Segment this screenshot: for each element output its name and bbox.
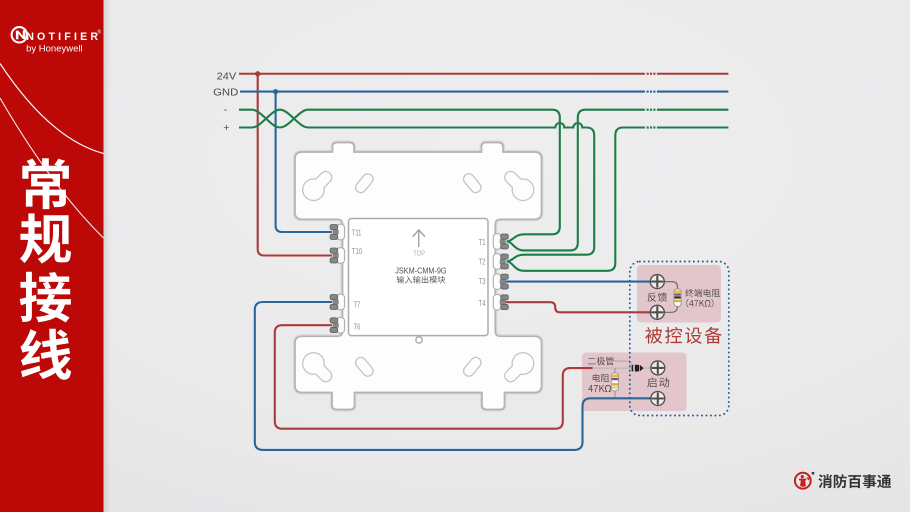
svg-text:T1: T1 xyxy=(479,238,486,247)
screw slot bottom-right-small xyxy=(469,363,476,371)
TOP arrow xyxy=(413,230,425,247)
svg-text:GND: GND xyxy=(213,87,238,98)
LED hole xyxy=(416,337,422,343)
label 反馈 xyxy=(648,293,668,302)
terminal pocket T11 xyxy=(337,224,345,240)
keyhole slot bottom-right xyxy=(511,352,535,376)
terminal pocket T4 xyxy=(493,294,501,310)
svg-text:T10: T10 xyxy=(352,247,363,256)
terminal screw block T11 xyxy=(330,225,339,240)
svg-text:NOTIFIER: NOTIFIER xyxy=(26,31,101,43)
terminal pocket T10 xyxy=(337,248,345,264)
消防百事通 logo text xyxy=(818,474,891,488)
svg-text:+: + xyxy=(223,122,229,134)
label 被控设备 xyxy=(645,327,722,344)
terminal screw block T10 xyxy=(330,248,339,263)
svg-text:-: - xyxy=(224,104,228,116)
svg-text:T6: T6 xyxy=(354,323,361,332)
controlled device feedback box xyxy=(637,265,721,323)
terminal pocket T3 xyxy=(493,274,501,290)
wire T3 to feedback screw (blue) xyxy=(506,281,651,283)
wire 24V bus (red) xyxy=(239,73,645,75)
screw slot top-right-small xyxy=(469,179,476,187)
screw terminal feedback - xyxy=(650,305,664,319)
svg-text:JSKM-CMM-9G: JSKM-CMM-9G xyxy=(395,266,447,276)
break dots plus xyxy=(647,126,656,128)
消防百事通 logo icon xyxy=(795,473,811,489)
terminal screw block T3 xyxy=(500,274,509,289)
break dots 24V xyxy=(647,73,656,75)
terminal screw block T7 xyxy=(330,295,339,310)
break dots GND xyxy=(647,91,656,93)
wire 24V drop to T10 xyxy=(258,74,332,256)
svg-text:24V: 24V xyxy=(217,71,237,82)
terminal pocket T6 xyxy=(337,317,345,333)
module front box JSKM-CMM-9G xyxy=(349,219,489,336)
svg-text:T4: T4 xyxy=(479,299,486,308)
screw terminal start + xyxy=(651,361,665,375)
label 电阻 xyxy=(593,374,609,382)
svg-text:TOP: TOP xyxy=(413,248,425,257)
diode D1 xyxy=(632,365,644,372)
pointer line to diode xyxy=(614,361,631,365)
start device box xyxy=(582,353,687,412)
label 启动 xyxy=(647,377,669,387)
svg-text:®: ® xyxy=(97,28,101,35)
resistor 47K leads xyxy=(614,368,616,373)
sidebar decorative arc 1 xyxy=(0,64,104,154)
internal wire to diode xyxy=(593,367,632,369)
keyhole slot top-right xyxy=(511,177,535,201)
wire T7 loop to start screw (blue) xyxy=(255,302,651,450)
svg-text:T2: T2 xyxy=(479,257,486,266)
red sidebar panel xyxy=(0,0,104,512)
label 输入输出模块 xyxy=(397,276,446,284)
screw terminal feedback + xyxy=(650,275,664,289)
label 终端电阻 xyxy=(685,289,720,297)
junction node GND xyxy=(273,89,278,94)
sidebar decorative arc 2 xyxy=(0,98,104,238)
wire minus bus (green) with twist, down to T1 xyxy=(239,110,560,242)
wire GND drop to T11 xyxy=(276,92,332,232)
terminating resistor 47K body xyxy=(674,289,681,307)
keyhole slot top-left xyxy=(302,177,326,201)
module mounting plate U1 backplate xyxy=(295,143,542,410)
junction node 24V xyxy=(255,71,260,76)
label 二极管 xyxy=(588,357,614,365)
wire screw1 to terminating resistor xyxy=(664,282,678,289)
break dots minus xyxy=(647,109,656,111)
terminal pocket T7 xyxy=(337,294,345,310)
wire GND bus (blue) xyxy=(240,91,645,93)
svg-text:by Honeywell: by Honeywell xyxy=(26,44,83,55)
terminal screw block T4 xyxy=(500,295,509,310)
terminal screw block T1 xyxy=(500,234,509,249)
wire T4 to feedback screw (red) xyxy=(506,302,651,312)
screw terminal start - xyxy=(651,392,665,406)
terminal screw block T6 xyxy=(330,318,339,333)
wire T2 return to plus bus xyxy=(507,128,645,271)
label (47KΩ) xyxy=(686,299,713,307)
terminal screw block T2 xyxy=(500,254,509,269)
resistor 47K body xyxy=(611,373,618,391)
wire plus bus (green) with twist and hops, down to T2 xyxy=(239,110,594,262)
sidebar title 常规接线 xyxy=(22,158,69,209)
label 47KΩ xyxy=(588,385,611,392)
keyhole slot bottom-left xyxy=(302,352,326,376)
screw slot top-left-small xyxy=(361,179,368,187)
dashed controlled-device boundary xyxy=(630,262,729,416)
wire T6 loop to diode (red) xyxy=(275,325,593,429)
wire T1 return to minus bus xyxy=(507,110,645,251)
svg-text:T7: T7 xyxy=(354,300,361,309)
svg-text:T3: T3 xyxy=(479,277,486,286)
terminal pocket T1 xyxy=(493,234,501,250)
NOTIFIER logo icon (circle N) xyxy=(12,27,27,42)
svg-text:T11: T11 xyxy=(352,229,362,238)
terminal pocket T2 xyxy=(493,254,501,270)
screw slot bottom-left-small xyxy=(361,363,368,371)
